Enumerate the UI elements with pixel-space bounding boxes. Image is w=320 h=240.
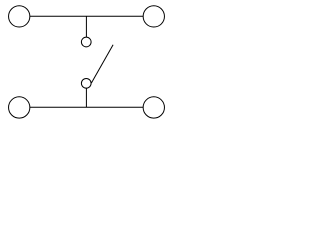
- wire stub to fixed contact: [85, 16, 87, 37]
- terminal T2 (top right): [143, 6, 164, 27]
- wire top rail: [30, 15, 143, 17]
- terminal T1 (top left): [9, 6, 30, 27]
- fixed contact (top): [81, 37, 91, 47]
- wire bottom rail: [30, 106, 143, 108]
- terminal T3 (bottom left): [9, 97, 30, 118]
- switch lever SW1 (open): [91, 45, 113, 83]
- moving contact pivot (bottom): [81, 78, 91, 88]
- wire stub from pivot: [85, 88, 87, 107]
- terminal T4 (bottom right): [143, 97, 164, 118]
